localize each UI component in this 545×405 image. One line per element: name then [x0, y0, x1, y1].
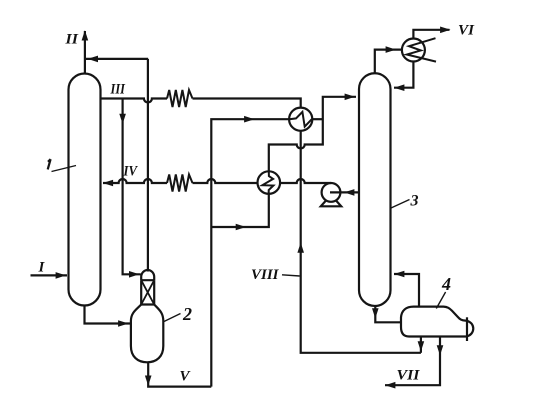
wire T1 right outlet to riser T junction: [312, 118, 323, 120]
svg-text:VIII: VIII: [251, 267, 280, 283]
svg-text:VI: VI: [458, 23, 475, 39]
arrow VI right: [440, 27, 450, 34]
vessel 2 packing box with X: [141, 280, 154, 304]
label 1: [48, 159, 76, 171]
wire vapor return from vessel 2 riser to II line: [86, 58, 148, 60]
svg-text:IV: IV: [123, 164, 139, 180]
svg-text:4: 4: [441, 274, 451, 294]
vessel 2 neck dome: [141, 270, 154, 280]
zigzag inside T2: [262, 171, 273, 193]
wire stream III from column 1 (y=98.5) with hop at x=147.9: [101, 99, 168, 103]
arrow left into column 3: [394, 84, 404, 91]
zigzag inside T1: [289, 112, 311, 127]
arrow left into pump: [344, 189, 354, 196]
arrow down on VII drop: [437, 345, 444, 355]
arrow right into vessel 2: [118, 320, 128, 327]
label 3: [391, 193, 419, 210]
arrow down on branch: [119, 114, 126, 124]
wire VI from condenser top: [413, 30, 449, 39]
leader VIII: [282, 275, 300, 276]
column 1: [69, 74, 101, 306]
svg-text:II: II: [64, 31, 79, 47]
arrow down into VIII line: [418, 341, 425, 351]
arrow right into column 3: [345, 94, 355, 101]
wire branch to T2 bottom: [211, 194, 268, 227]
arrow right into vessel 2 neck: [129, 271, 139, 278]
svg-text:V: V: [180, 369, 192, 385]
wire column 3 overhead to condenser: [375, 50, 402, 74]
wire column 1 bottoms to vessel 2: [85, 306, 131, 324]
arrow VIII up: [297, 243, 304, 253]
wire VIII vertical through T1 bottom (x=300.7): [301, 131, 421, 353]
wire feed I into column 1: [31, 274, 68, 276]
wire II riser from column 1 top: [84, 31, 86, 74]
svg-text:III: III: [110, 82, 126, 98]
svg-text:2: 2: [182, 304, 192, 324]
arrow VII left: [385, 382, 395, 389]
arrow IV left into column 1: [103, 180, 113, 187]
wire pump suction from column 3: [330, 191, 359, 193]
wire IV left segment with hops at 147.9 and 122.6: [103, 179, 167, 183]
wire reboiler vapor return to column 3: [394, 274, 419, 307]
heat exchanger (zigzag) on III line: [167, 90, 193, 107]
wire reboiler outlet to VIII line: [420, 337, 422, 353]
reboiler 4 (kettle) shell: [401, 307, 467, 337]
arrow II up: [82, 30, 89, 40]
wire III line continuation to corner above exchanger T1: [193, 99, 301, 108]
wire T2 top to column 3 feed: [269, 97, 356, 172]
wire saturated absorbent riser (x=211.3) from V line to T1: [211, 119, 289, 386]
arrow right into T1: [244, 116, 254, 123]
svg-text:VII: VII: [397, 368, 421, 384]
wire IV middle segment through lower exchanger: [193, 179, 258, 183]
arrow down on bottoms line: [372, 308, 379, 318]
label 4: [436, 274, 451, 309]
arrow right into condenser: [386, 46, 396, 53]
arrow I right: [56, 272, 66, 279]
arrow left into II riser: [88, 56, 98, 63]
svg-text:3: 3: [410, 193, 419, 210]
vessel 2 body: [131, 305, 163, 363]
wire vessel-2 vapor riser (x=147.9): [147, 59, 149, 272]
reboiler tube sheet: [466, 317, 468, 341]
condenser (circle with zigzag and coolant diagonals): [402, 38, 436, 61]
wire branch of III down to vessel 2 (x=122.6): [123, 99, 141, 275]
reboiler end cap: [467, 321, 473, 336]
arrow left into column 3: [394, 271, 404, 278]
wire column 3 bottoms to reboiler 4: [375, 306, 401, 322]
pump: [321, 183, 341, 206]
arrow V down: [145, 376, 152, 386]
heat exchanger T1 (circle, upper): [289, 108, 312, 131]
wire stream IV from pump to column 1 (y=183) with hops: [280, 179, 331, 183]
wire V from vessel 2 bottom: [148, 362, 211, 386]
wire reflux from condenser bottom to column 3: [394, 62, 413, 88]
wire VII from reboiler bottom: [385, 337, 440, 386]
column 3: [359, 73, 391, 306]
heat exchanger T2 (circle, lower): [258, 171, 281, 194]
arrow right on branch: [236, 224, 246, 231]
svg-text:I: I: [38, 260, 46, 276]
label 2: [164, 304, 192, 324]
heat exchanger (zigzag) on IV line: [167, 175, 193, 192]
